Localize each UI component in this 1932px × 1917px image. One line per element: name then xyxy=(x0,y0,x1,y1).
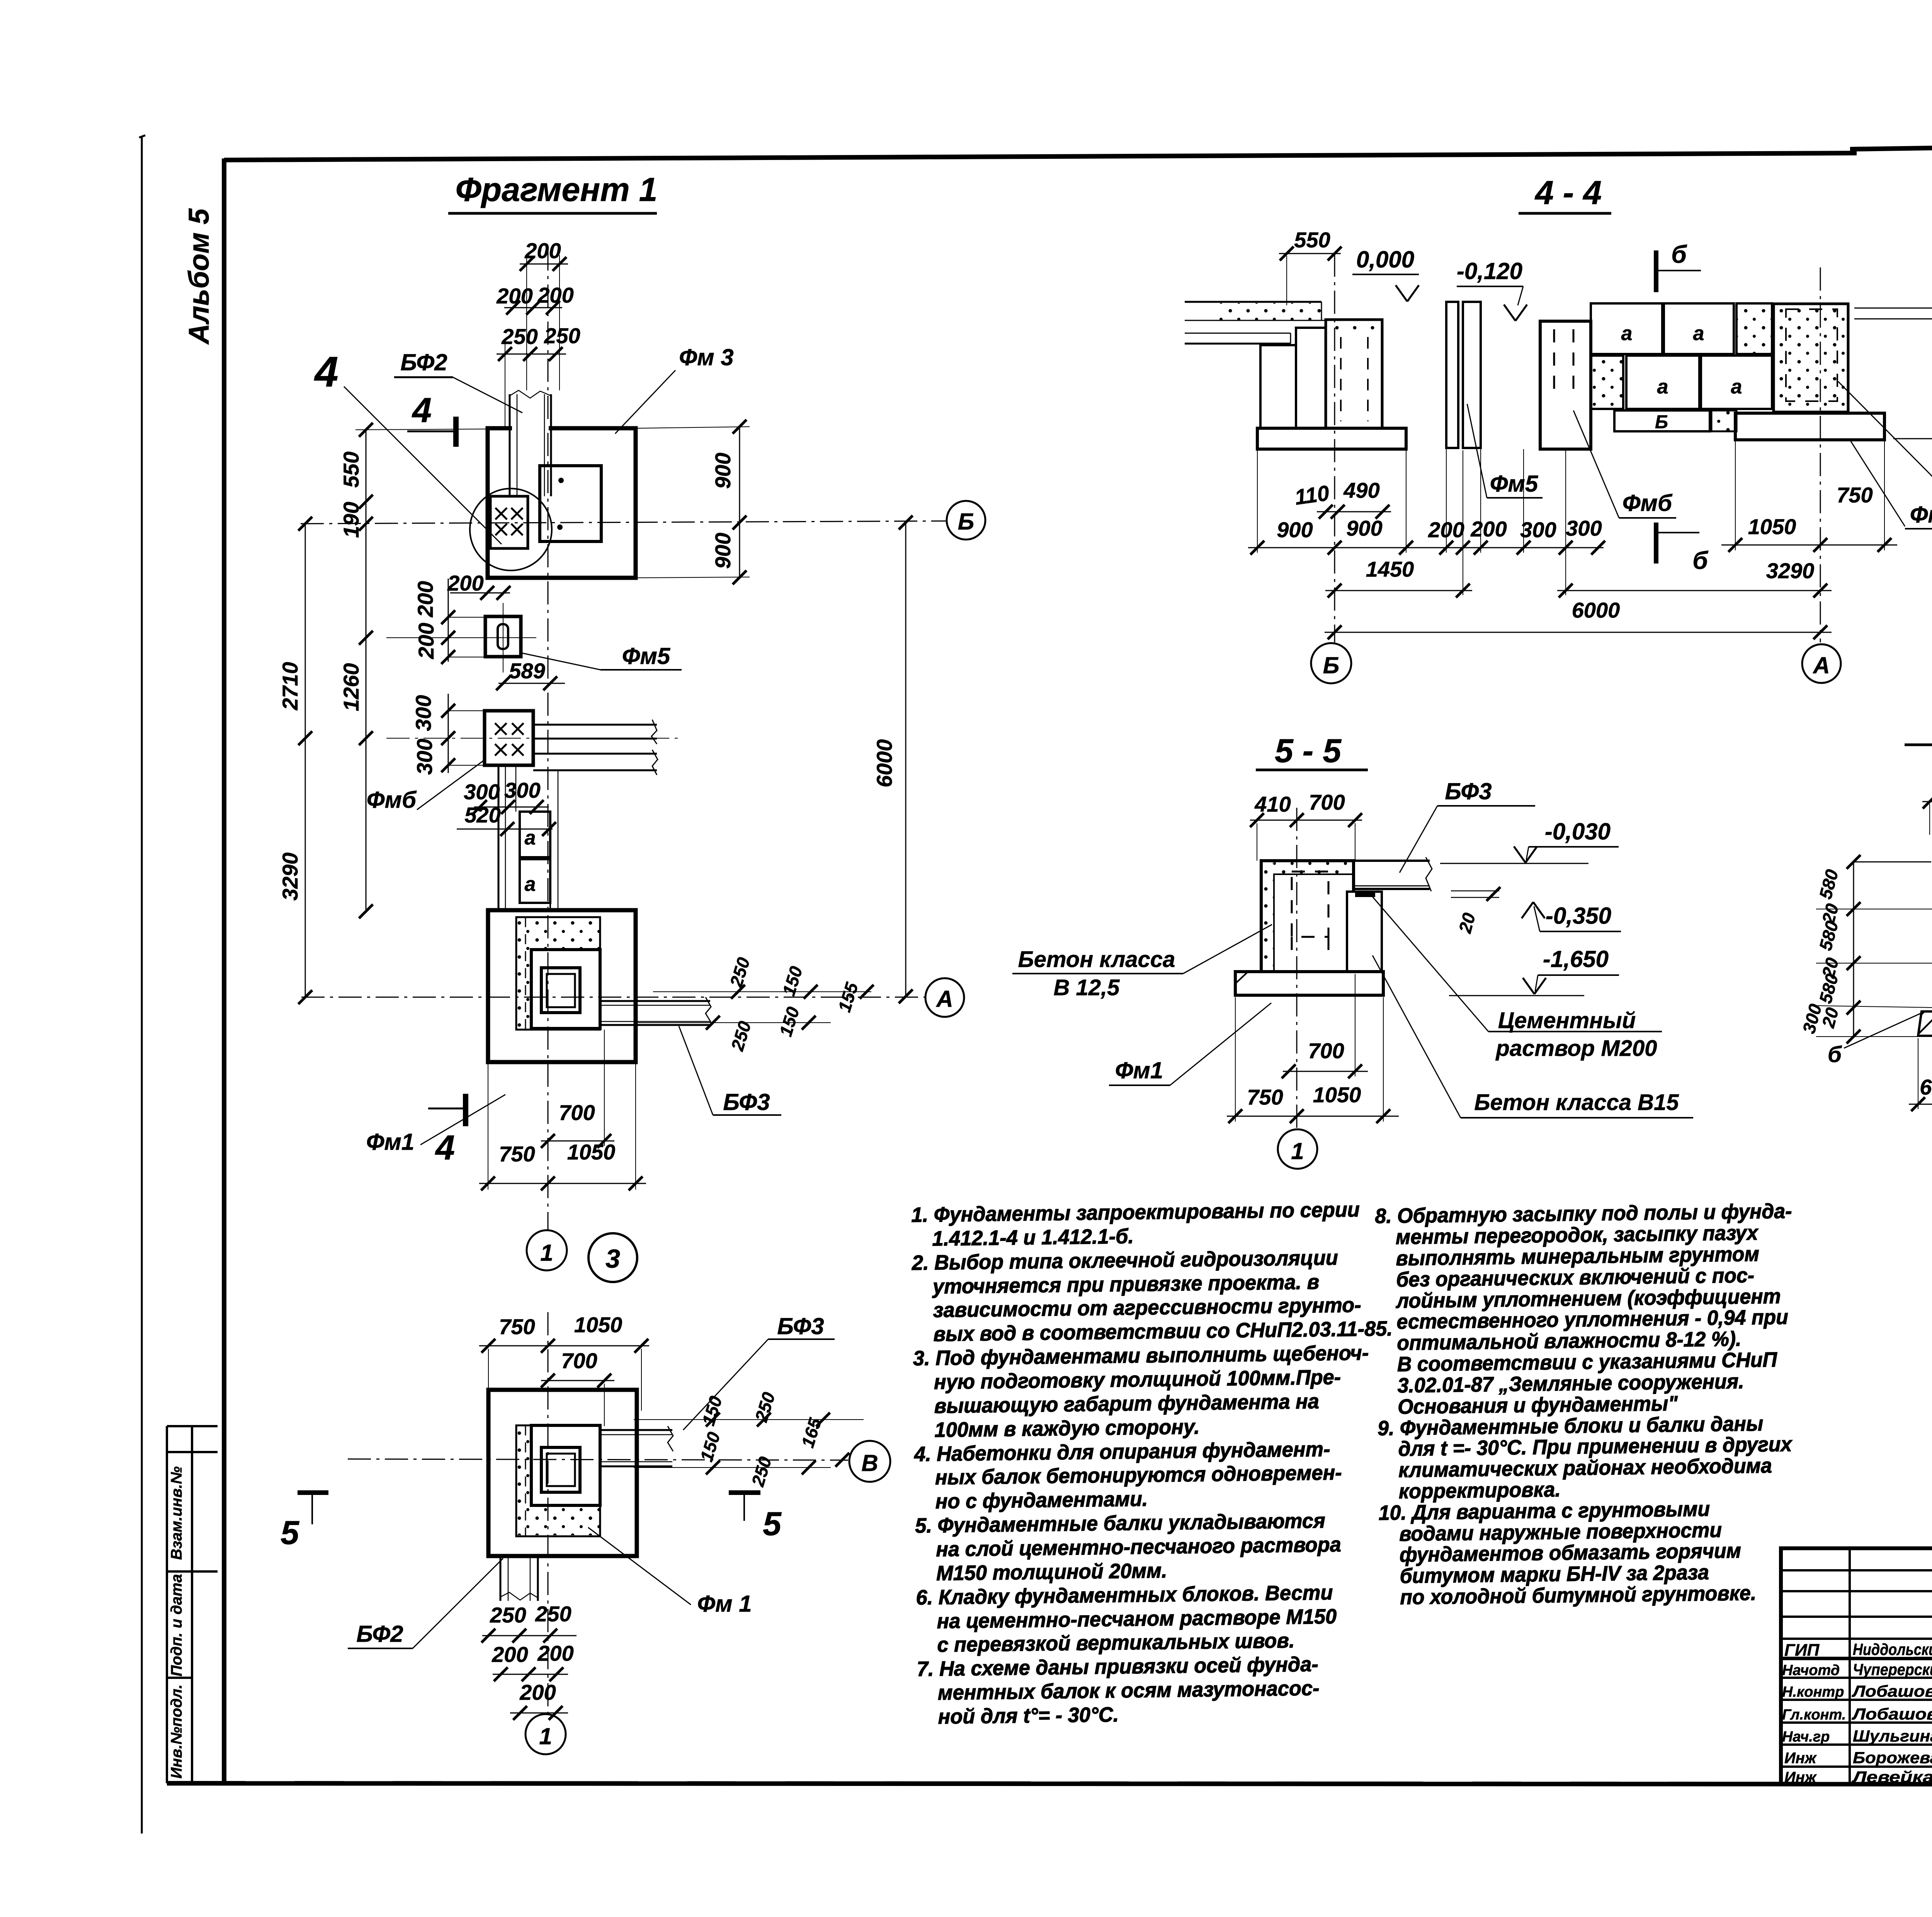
foundation Фм1 node3 outline xyxy=(488,1390,637,1556)
stamp strip divider 2 xyxy=(167,1451,218,1453)
svg-text:Инж: Инж xyxy=(1784,1750,1817,1767)
label БФ3 (5-5) xyxy=(1400,778,1535,873)
svg-text:1: 1 xyxy=(1291,1138,1304,1164)
svg-text:Цементный: Цементный xyxy=(1498,1008,1636,1033)
svg-text:В 12,5: В 12,5 xyxy=(1054,975,1120,1000)
svg-text:1.412.1-4 и 1.412.1-б.: 1.412.1-4 и 1.412.1-б. xyxy=(932,1225,1134,1250)
beam БФ3 to the right xyxy=(600,985,874,1030)
axis circle А bottom xyxy=(1802,644,1841,683)
beam БФ2 exiting bottom xyxy=(500,1556,538,1601)
svg-text:4: 4 xyxy=(412,391,432,430)
svg-text:1: 1 xyxy=(539,1723,552,1749)
section mark 4 (top) xyxy=(407,391,456,447)
left stamp strip xyxy=(167,1426,218,1783)
inner step of Фм3 xyxy=(540,466,601,541)
svg-text:520: 520 xyxy=(464,803,500,827)
svg-text:а: а xyxy=(1731,376,1742,398)
svg-text:б: б xyxy=(1692,546,1709,574)
dim 250 250 node3 xyxy=(481,1602,577,1643)
svg-text:300: 300 xyxy=(1520,518,1556,542)
svg-text:4: 4 xyxy=(435,1129,455,1167)
dim 200 200 xyxy=(496,283,573,315)
masonry block Б row3 xyxy=(1614,410,1736,432)
axis circle В xyxy=(849,1441,890,1482)
svg-text:Фм1: Фм1 xyxy=(1115,1057,1163,1083)
rotated dims 200 200 left of Фм5 xyxy=(413,579,485,664)
svg-text:а: а xyxy=(1621,322,1633,345)
stamp strip divider 4 xyxy=(167,1677,192,1679)
svg-text:Б: Б xyxy=(1323,652,1339,678)
svg-text:250: 250 xyxy=(535,1602,571,1626)
dim 550 xyxy=(1279,228,1342,305)
svg-text:550: 550 xyxy=(339,451,363,487)
svg-text:900: 900 xyxy=(1346,516,1382,540)
svg-text:б: б xyxy=(1828,1042,1842,1067)
svg-text:600: 600 xyxy=(1920,1075,1932,1099)
beam БФ3 right node3 xyxy=(600,1413,864,1474)
svg-text:1050: 1050 xyxy=(1748,514,1796,539)
svg-text:Фмб: Фмб xyxy=(1622,490,1673,516)
signature table grid xyxy=(1781,1548,1932,1784)
svg-text:200: 200 xyxy=(447,571,483,595)
level -0,350 xyxy=(1522,902,1621,931)
notes column 2 xyxy=(1375,1200,1797,1609)
svg-text:5 - 5: 5 - 5 xyxy=(1275,732,1342,770)
dim 200 above Фм5 xyxy=(447,571,510,600)
dim 700 under Фм1 xyxy=(541,1030,614,1148)
label Бетон класса В15 (4-4) xyxy=(1838,381,1932,480)
dim 750 1050 under Фм1 xyxy=(479,1062,646,1190)
svg-text:3290: 3290 xyxy=(1766,558,1815,583)
dim 3290 xyxy=(1557,558,1832,598)
joint 20 with dim xyxy=(1451,887,1500,935)
svg-text:Лобашов: Лобашов xyxy=(1852,1705,1932,1723)
dim 520 xyxy=(457,803,556,836)
title 5-5 xyxy=(1256,732,1368,770)
svg-text:300: 300 xyxy=(464,780,500,804)
label Фм1 upper xyxy=(366,1095,505,1155)
svg-text:6000: 6000 xyxy=(1572,598,1620,622)
level -0,030 (5-5) xyxy=(1440,819,1619,863)
svg-text:Подп. и дата: Подп. и дата xyxy=(168,1574,185,1677)
svg-text:7. На схеме даны привязки осей: 7. На схеме даны привязки осей фунда- xyxy=(917,1653,1318,1681)
svg-text:Лобашов: Лобашов xyxy=(1852,1682,1932,1700)
svg-text:но с фундаментами.: но с фундаментами. xyxy=(935,1488,1148,1514)
node circle detail 4 xyxy=(470,489,552,570)
svg-text:б: б xyxy=(1671,240,1687,268)
svg-text:250: 250 xyxy=(501,324,537,349)
6-6 level line -0,030 xyxy=(1855,861,1932,863)
dim 410 700 top of 5-5 xyxy=(1250,790,1362,861)
column pocket double square node3 xyxy=(541,1447,580,1492)
svg-text:1: 1 xyxy=(540,1240,553,1266)
node 3 plan: axis vertical xyxy=(548,1312,549,1714)
section mark б bottom xyxy=(1656,523,1709,574)
svg-text:вышающую габарит фундамента на: вышающую габарит фундамента на xyxy=(934,1390,1319,1418)
dim 700 above node3 xyxy=(541,1348,614,1426)
column pocket double square xyxy=(541,968,580,1013)
svg-text:-0,120: -0,120 xyxy=(1457,258,1522,284)
svg-text:Чуперерский: Чуперерский xyxy=(1853,1660,1932,1679)
svg-text:200: 200 xyxy=(537,1641,573,1665)
svg-text:Фм5: Фм5 xyxy=(1490,471,1539,497)
element Фм5 slabs xyxy=(1446,302,1481,448)
svg-text:БФ3: БФ3 xyxy=(777,1313,824,1339)
big node label 4 xyxy=(314,348,502,544)
dim 300 300 below Фм6 xyxy=(464,778,549,814)
svg-text:а: а xyxy=(1693,322,1704,345)
svg-text:3: 3 xyxy=(605,1244,620,1273)
svg-text:ментных балок к осям мазутонас: ментных балок к осям мазутонасос- xyxy=(938,1677,1320,1704)
svg-text:Борожева: Борожева xyxy=(1853,1748,1932,1767)
svg-text:900: 900 xyxy=(711,533,735,569)
svg-text:4 - 4: 4 - 4 xyxy=(1534,174,1602,211)
dim 6000 xyxy=(1325,598,1832,639)
svg-text:250: 250 xyxy=(544,323,580,348)
notes column 1 xyxy=(911,1198,1397,1729)
foundation Фм5 small plan xyxy=(386,603,536,672)
label БФ2 xyxy=(394,349,522,413)
svg-text:Инв.№подл.: Инв.№подл. xyxy=(168,1684,185,1779)
6-6 left extension lines xyxy=(1816,855,1932,1044)
svg-text:100мм в каждую сторону.: 100мм в каждую сторону. xyxy=(934,1415,1200,1442)
svg-text:550: 550 xyxy=(1294,228,1330,252)
svg-text:уточняется при привязке проект: уточняется при привязке проекта. в xyxy=(932,1270,1320,1298)
axis line vertical 1 (wall axis) xyxy=(548,247,549,1230)
svg-text:6000: 6000 xyxy=(872,739,896,788)
section mark 4 (bottom) xyxy=(428,1094,466,1167)
svg-text:1050: 1050 xyxy=(1313,1083,1361,1107)
svg-text:1260: 1260 xyxy=(339,663,363,712)
level mark 0,000 xyxy=(1352,247,1419,301)
dim row 900 900 200 200 300 300 xyxy=(1248,448,1605,595)
dim 400 (6-6) xyxy=(1922,777,1932,835)
5-5 axis vertical xyxy=(1296,808,1298,1128)
level mark -0,120 xyxy=(1457,258,1527,321)
svg-text:Нач.гр: Нач.гр xyxy=(1782,1729,1830,1745)
rotated dims 300 300 left of Фм6 xyxy=(411,694,485,775)
svg-text:-0,030: -0,030 xyxy=(1545,819,1611,844)
dim 110 490 xyxy=(1293,478,1391,519)
label БФ3 upper xyxy=(679,1026,781,1115)
5-5 mortar pad М200 xyxy=(1355,891,1375,897)
frame top border xyxy=(224,153,1857,160)
svg-text:5: 5 xyxy=(281,1514,299,1551)
5-5 U-shaped foundation wall xyxy=(1261,861,1354,972)
axis line Б horizontal xyxy=(301,521,946,524)
svg-text:Альбом 5: Альбом 5 xyxy=(183,208,215,345)
signature table labels xyxy=(1782,1641,1846,1786)
svg-text:Гл.конт.: Гл.конт. xyxy=(1782,1707,1846,1723)
dim 200 200 node3 xyxy=(492,1641,573,1681)
label б with leader (6-6) xyxy=(1828,1013,1922,1067)
svg-text:750: 750 xyxy=(499,1314,535,1339)
svg-text:200: 200 xyxy=(519,1680,556,1704)
svg-text:Начотд: Начотд xyxy=(1782,1662,1840,1679)
svg-text:А: А xyxy=(1812,652,1830,678)
svg-text:по холодной битумной грунтов: по холодной битумной грунтовке. xyxy=(1400,1582,1757,1609)
label Фм1 (4-4 right footing) xyxy=(1851,441,1932,529)
label Бетон класса В 12,5 xyxy=(1012,924,1272,1000)
frame left border xyxy=(222,158,226,1785)
element Фм6 column xyxy=(1540,321,1591,449)
section mark б top xyxy=(1656,240,1701,292)
svg-text:589: 589 xyxy=(509,659,545,683)
svg-text:5: 5 xyxy=(763,1505,782,1542)
svg-text:900: 900 xyxy=(1277,518,1313,542)
dim 750 1050 above node3 xyxy=(479,1313,649,1411)
stamp strip vertical mid xyxy=(191,1426,193,1783)
svg-text:Бетон класса В15: Бетон класса В15 xyxy=(1474,1090,1679,1115)
svg-text:Фм5: Фм5 xyxy=(622,643,671,669)
axis through Фм6 xyxy=(386,738,680,739)
section Фм3 wall blocks xyxy=(1260,320,1382,428)
level mark -1,650 right xyxy=(1893,390,1932,439)
svg-text:ной для t°= - 30°С.: ной для t°= - 30°С. xyxy=(938,1703,1119,1729)
svg-text:с перевязкой вертикальных швов: с перевязкой вертикальных швов. xyxy=(937,1629,1295,1657)
dim 200 node3 xyxy=(510,1680,568,1720)
masonry blocks а row1 xyxy=(1591,303,1772,354)
dim 900 900 right of Фм3 xyxy=(638,420,750,584)
svg-text:Фм 3: Фм 3 xyxy=(679,344,733,370)
axis circle 1 (upper) xyxy=(527,1230,567,1270)
6-6 rotated dim labels xyxy=(1798,867,1842,1036)
svg-text:В: В xyxy=(861,1450,878,1476)
svg-text:750: 750 xyxy=(1837,483,1872,507)
label Бетон класса В15 (5-5) xyxy=(1372,955,1693,1118)
title 4-4 xyxy=(1519,174,1611,213)
foundation Фм3 outline xyxy=(488,428,636,578)
label Фм5 in 4-4 xyxy=(1467,404,1543,498)
beam БФ2 entering plan xyxy=(510,390,551,496)
5-5 footing xyxy=(1235,972,1383,995)
svg-text:300: 300 xyxy=(504,778,540,802)
dim 6000 vertical right xyxy=(872,516,913,1003)
svg-text:300: 300 xyxy=(411,695,435,731)
svg-text:410: 410 xyxy=(1254,792,1291,816)
level -1,650 (5-5) xyxy=(1449,946,1619,996)
axis circle 1 (5-5) xyxy=(1278,1129,1317,1169)
svg-text:200: 200 xyxy=(1470,517,1507,541)
stamp strip vertical left xyxy=(166,1426,168,1783)
svg-text:БФ2: БФ2 xyxy=(356,1621,403,1647)
svg-text:200: 200 xyxy=(492,1642,528,1667)
title block header row line xyxy=(1781,1658,1932,1659)
outer dim chain x790 xyxy=(278,517,312,1004)
svg-text:2710: 2710 xyxy=(278,662,302,711)
svg-text:Б: Б xyxy=(1655,412,1668,432)
label Фм 3 xyxy=(615,344,734,434)
dim 1450 xyxy=(1325,450,1472,598)
node circle 3 xyxy=(588,1233,637,1282)
right footing Фм1 of 4-4 xyxy=(1735,413,1884,440)
label Фм1 (5-5) xyxy=(1109,1003,1271,1085)
svg-text:Фмб: Фмб xyxy=(367,787,417,813)
svg-text:700: 700 xyxy=(1309,790,1345,814)
svg-text:Фм 1: Фм 1 xyxy=(697,1591,752,1617)
svg-text:1050: 1050 xyxy=(574,1313,622,1337)
svg-text:-0,350: -0,350 xyxy=(1546,903,1611,929)
svg-text:200: 200 xyxy=(414,623,438,659)
dim 750 1050 (5-5) xyxy=(1227,997,1399,1123)
dim 1050 750 right xyxy=(1721,440,1897,552)
svg-text:а: а xyxy=(525,827,536,849)
left trim tick top xyxy=(139,135,145,138)
svg-text:490: 490 xyxy=(1343,478,1379,502)
foundation Фм6 small plan xyxy=(485,711,533,765)
axis Б of section 4-4 xyxy=(1334,254,1335,642)
level lines right of pier xyxy=(1854,308,1932,319)
svg-text:300: 300 xyxy=(412,739,437,775)
svg-text:а: а xyxy=(525,873,536,896)
dim 250 250 xyxy=(497,323,580,429)
svg-text:Ниддольский: Ниддольский xyxy=(1853,1640,1932,1658)
stamp strip divider 1 xyxy=(167,1425,218,1427)
right pier of 4-4 xyxy=(1774,304,1848,412)
svg-text:900: 900 xyxy=(711,453,735,489)
svg-text:190: 190 xyxy=(339,502,363,538)
axis line А horizontal xyxy=(301,997,925,998)
label БФ3 node3 xyxy=(683,1313,835,1430)
svg-text:-1,650: -1,650 xyxy=(1543,946,1609,972)
floor slab top left of 4-4 xyxy=(1185,302,1330,344)
label Цементный раствор М200 xyxy=(1370,894,1662,1061)
label Фм 1 node3 xyxy=(588,1527,752,1617)
svg-text:Инж: Инж xyxy=(1784,1769,1817,1786)
foundation beams right of Фм6 xyxy=(533,720,658,775)
axis circle Б xyxy=(947,501,985,540)
svg-text:Бетон класса: Бетон класса xyxy=(1018,947,1175,972)
svg-text:4: 4 xyxy=(314,348,338,396)
svg-text:Фм1: Фм1 xyxy=(366,1129,415,1155)
svg-text:Шульгина: Шульгина xyxy=(1853,1727,1932,1745)
svg-text:Б: Б xyxy=(958,509,974,535)
axis circle А xyxy=(925,978,964,1017)
svg-text:300: 300 xyxy=(1566,516,1602,540)
svg-text:Н.контр: Н.контр xyxy=(1782,1684,1844,1700)
svg-text:БФ3: БФ3 xyxy=(723,1089,770,1115)
dim 600 200 (6-6) xyxy=(1909,1038,1932,1111)
rotated beam dims 250 150 155 xyxy=(726,955,862,1054)
stamp strip divider 3 xyxy=(167,1570,218,1573)
svg-text:А: А xyxy=(935,986,953,1012)
svg-text:250: 250 xyxy=(490,1603,526,1627)
left trim line xyxy=(141,137,143,1834)
node 3 plan: axis В horizontal xyxy=(348,1459,848,1460)
label Фм6 xyxy=(367,760,485,813)
label БФ2 node3 xyxy=(348,1558,503,1648)
svg-text:700: 700 xyxy=(1308,1039,1344,1063)
wall with blocks а below Фм6 xyxy=(498,765,558,910)
svg-text:700: 700 xyxy=(559,1100,595,1125)
svg-text:110: 110 xyxy=(1293,480,1331,509)
5-5 right column xyxy=(1347,892,1382,972)
label Фм6 in 4-4 xyxy=(1573,410,1676,518)
foundation Фм1 upper plan xyxy=(488,910,636,1062)
5-5 beam БФ3 xyxy=(1354,857,1432,891)
dim 589 xyxy=(496,659,565,690)
6-6 footing xyxy=(1918,1011,1932,1036)
svg-text:700: 700 xyxy=(561,1348,597,1373)
section mark 5 right xyxy=(729,1493,782,1542)
title 6-6 xyxy=(1905,709,1932,746)
inner concrete zone of Фм1 xyxy=(516,917,600,1030)
dim 200 top xyxy=(520,238,568,390)
section Фм3 footing xyxy=(1257,428,1406,449)
svg-text:Взам.инв.№: Взам.инв.№ xyxy=(168,1466,185,1560)
svg-text:3290: 3290 xyxy=(278,853,302,901)
inner concrete zone node3 xyxy=(516,1425,600,1536)
svg-text:раствор М200: раствор М200 xyxy=(1495,1036,1657,1061)
axis circle Б bottom xyxy=(1311,643,1351,683)
svg-text:М150 толщиной 20мм.: М150 толщиной 20мм. xyxy=(936,1559,1167,1585)
svg-text:климатических районах необход: климатических районах необходима xyxy=(1398,1454,1772,1482)
axis А of 4-4 xyxy=(1820,267,1821,642)
svg-text:а: а xyxy=(1657,376,1668,398)
section mark 5 left xyxy=(281,1493,328,1551)
svg-text:Левейка: Левейка xyxy=(1851,1768,1932,1786)
svg-text:БФ2: БФ2 xyxy=(400,349,447,375)
svg-text:200: 200 xyxy=(496,284,532,308)
label Фм5 xyxy=(522,643,682,670)
svg-text:БФ3: БФ3 xyxy=(1445,778,1492,804)
svg-text:200: 200 xyxy=(413,581,437,617)
svg-text:1450: 1450 xyxy=(1366,557,1414,581)
frame bottom border xyxy=(167,1783,1932,1784)
svg-text:Фм1: Фм1 xyxy=(1910,502,1932,528)
svg-text:на цементно-песчаном растворе: на цементно-песчаном растворе М150 xyxy=(937,1605,1337,1633)
svg-text:750: 750 xyxy=(1247,1085,1283,1109)
svg-text:1050: 1050 xyxy=(567,1140,616,1164)
dim 700 bottom (5-5) xyxy=(1282,974,1368,1078)
svg-text:750: 750 xyxy=(499,1142,535,1166)
left dim chain x950 xyxy=(339,423,488,918)
svg-text:0,000: 0,000 xyxy=(1356,247,1414,272)
column pocket with anchor bolts xyxy=(490,496,528,548)
svg-text:на слой цементно-песчаного рас: на слой цементно-песчаного раствора xyxy=(936,1533,1341,1561)
signature table names xyxy=(1851,1640,1932,1786)
rotated beam dims node3 xyxy=(696,1390,826,1489)
svg-text:Фрагмент 1: Фрагмент 1 xyxy=(456,171,658,208)
masonry blocks а row2 xyxy=(1591,356,1772,409)
axis circle 1 node3 xyxy=(526,1714,566,1754)
title block outer box xyxy=(1781,1548,1932,1784)
title Фрагмент 1 xyxy=(448,171,657,213)
